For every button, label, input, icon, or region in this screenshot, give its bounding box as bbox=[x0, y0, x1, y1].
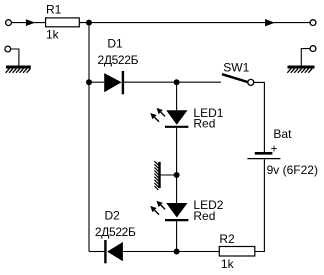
svg-text:2Д522Б: 2Д522Б bbox=[95, 225, 136, 239]
terminal top-left bbox=[6, 20, 12, 26]
svg-text:D2: D2 bbox=[105, 208, 121, 222]
wire from SW1 to battery branch bbox=[254, 82, 265, 152]
wire middle vertical between LEDs bbox=[176, 128, 178, 203]
arrow left on top wire bbox=[26, 19, 35, 26]
wire D1 row left segment bbox=[89, 81, 104, 83]
wire middle vertical lower (LED2 to bottom) bbox=[176, 221, 178, 251]
svg-text:SW1: SW1 bbox=[223, 60, 249, 74]
battery Bat bbox=[247, 153, 280, 158]
svg-text:+: + bbox=[271, 142, 278, 156]
node junction bottom bbox=[174, 249, 180, 255]
wire top from R1 to right terminal bbox=[79, 22, 310, 24]
node junction D1 anode bbox=[86, 79, 92, 85]
LED1 bbox=[165, 110, 188, 127]
svg-text:D1: D1 bbox=[107, 37, 123, 51]
diode D2 bbox=[105, 240, 123, 263]
svg-text:1k: 1k bbox=[221, 257, 235, 270]
terminal top-right bbox=[310, 20, 316, 26]
wire from left-lower terminal to ground bbox=[11, 49, 19, 66]
wire from right-lower terminal to ground bbox=[301, 49, 310, 66]
wire bottom left segment bbox=[89, 251, 104, 253]
svg-text:2Д522Б: 2Д522Б bbox=[98, 53, 139, 67]
svg-text:Red: Red bbox=[193, 209, 215, 223]
svg-text:9v (6F22): 9v (6F22) bbox=[267, 163, 318, 177]
node junction middle top bbox=[174, 79, 180, 85]
wire top from left terminal to R1 bbox=[11, 22, 45, 24]
svg-text:R1: R1 bbox=[46, 3, 62, 17]
light arrows of LED1 bbox=[150, 108, 165, 122]
wire D1 row right segment bbox=[124, 81, 221, 83]
resistor R1 bbox=[46, 18, 80, 27]
LED2 bbox=[165, 203, 188, 220]
switch SW1 bbox=[222, 74, 254, 85]
wire middle vertical upper (to LED1) bbox=[176, 82, 178, 110]
node junction under R1 bbox=[86, 20, 92, 26]
light arrows of LED2 bbox=[150, 201, 165, 215]
diode D1 bbox=[104, 71, 123, 94]
wire to chassis symbol bbox=[161, 174, 177, 176]
svg-text:Red: Red bbox=[193, 116, 215, 130]
terminal right-lower bbox=[310, 46, 316, 52]
wire left vertical bbox=[88, 23, 90, 252]
node junction chassis bbox=[174, 172, 180, 178]
wire battery to bottom-right corner bbox=[255, 159, 265, 251]
chassis ground middle bbox=[154, 161, 160, 190]
terminal left-lower bbox=[5, 46, 11, 52]
svg-text:R2: R2 bbox=[219, 232, 235, 246]
ground right bbox=[287, 66, 314, 73]
ground left bbox=[6, 66, 31, 73]
svg-text:Bat: Bat bbox=[273, 127, 292, 141]
wire bottom middle segment bbox=[123, 251, 219, 253]
arrow right on top wire bbox=[265, 19, 275, 26]
resistor R2 bbox=[219, 247, 255, 257]
svg-text:1k: 1k bbox=[46, 28, 60, 42]
